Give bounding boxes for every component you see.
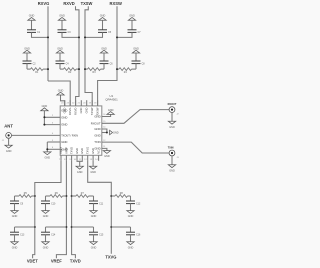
node junction on net (C13): [34, 226, 36, 228]
wire GND stem pin 13: [92, 161, 94, 167]
ground above C3: [58, 15, 65, 21]
svg-text:C12: C12: [136, 203, 141, 205]
wire left GND bus (pins 5,6): [46, 142, 48, 152]
svg-text:VREF: VREF: [64, 147, 68, 154]
svg-text:GND: GND: [129, 15, 135, 18]
pin 8 stub (bottom): [65, 155, 67, 161]
wire RXSW vertical: [98, 6, 117, 106]
wire down to C16: [130, 227, 132, 232]
capacitor C11: [89, 201, 104, 205]
wire ANT to pin 4 TXOUT/RXIN: [12, 134, 61, 136]
wire ANT shield to ground: [8, 138, 10, 145]
wire VREF net: [56, 161, 66, 258]
wire net to C14: [46, 226, 67, 228]
svg-text:VREF: VREF: [51, 259, 62, 264]
ground at IC right top: [107, 109, 114, 115]
wire GND to C3: [61, 20, 63, 30]
pin 2 stub (left): [44, 116, 60, 118]
ground below C14: [42, 242, 49, 250]
ground above C6: [100, 47, 107, 53]
node junction on net at y69 (C8): [116, 68, 118, 70]
wire C4 down: [59, 64, 61, 70]
resistor R1: [31, 68, 44, 75]
svg-text:TXIN: TXIN: [94, 140, 100, 144]
svg-text:GND: GND: [79, 107, 83, 113]
ground below C13: [11, 242, 18, 250]
svg-text:GND: GND: [128, 246, 134, 249]
svg-text:GND: GND: [94, 146, 100, 150]
svg-text:GND: GND: [101, 47, 107, 50]
wire GND to C6: [103, 53, 105, 61]
capacitor C16: [126, 232, 141, 236]
capacitor C1 (RXVG bypass): [27, 30, 41, 34]
capacitor C14: [41, 232, 56, 236]
pin 18 stub (top): [97, 100, 99, 106]
capacitor C8: [132, 61, 146, 65]
svg-text:GND: GND: [113, 132, 119, 135]
wire R6 to C10: [46, 195, 51, 197]
wire down to C14: [45, 227, 47, 232]
svg-text:GND: GND: [6, 150, 12, 153]
ground at IC left (pins 5,6): [44, 152, 51, 160]
wire C3 to net: [62, 32, 79, 37]
svg-text:GND: GND: [59, 15, 65, 18]
svg-text:GND: GND: [90, 171, 96, 174]
pin 14 stub (right GND): [102, 129, 107, 133]
wire R5 to C9: [15, 195, 20, 197]
node junction on net (C15): [71, 226, 73, 228]
node junction on net at y37 (C7): [116, 36, 118, 38]
svg-text:GND: GND: [61, 109, 67, 113]
svg-text:VDET: VDET: [27, 259, 38, 264]
wire GND bus pins 10,11 (bottom): [77, 160, 82, 163]
pin 23 stub (top): [69, 100, 71, 106]
svg-text:TXVG: TXVG: [105, 254, 116, 259]
svg-text:GND: GND: [80, 148, 84, 154]
svg-text:GND: GND: [75, 148, 79, 154]
node junction on net at y37 (C3): [78, 36, 80, 38]
ground above C2: [23, 47, 30, 53]
svg-text:GND: GND: [133, 47, 139, 50]
wire C12 to ground: [130, 204, 132, 211]
svg-text:GND: GND: [58, 89, 64, 92]
wire TXSW vertical: [85, 6, 92, 106]
ground below C16: [127, 242, 134, 250]
wire down to C13: [14, 227, 16, 232]
node junction on net (C12): [110, 195, 112, 197]
svg-text:TXOUT / RXIN: TXOUT / RXIN: [61, 133, 78, 137]
node junction on net at y69 (C4): [78, 68, 80, 70]
svg-text:GND: GND: [57, 47, 63, 50]
node junction pin6/GND bus: [46, 148, 48, 150]
svg-text:GND: GND: [61, 115, 67, 119]
svg-text:GND: GND: [91, 215, 97, 218]
svg-text:GND: GND: [100, 15, 106, 18]
capacitor C13: [10, 232, 25, 236]
wire net to R8: [111, 195, 115, 197]
svg-text:QPA4501: QPA4501: [105, 97, 118, 101]
pin 7 stub (bottom): [60, 155, 62, 161]
node junction on net (C16): [110, 226, 112, 228]
resistor R7: [76, 193, 89, 198]
wire R1 to net: [43, 68, 48, 70]
capacitor C5 (TXSW bypass): [98, 30, 112, 34]
wire left GND bus (pins 2,3): [43, 111, 45, 125]
ground at IC right middle: [110, 130, 119, 134]
pin 13 stub (right GND): [102, 132, 107, 134]
wire C1 to net: [32, 32, 49, 37]
svg-text:RXVG: RXVG: [38, 1, 50, 6]
svg-text:C16: C16: [136, 235, 141, 237]
wire down to C12: [130, 196, 132, 201]
node junction on net at y37 (C1): [47, 36, 49, 38]
resistor R8: [115, 193, 128, 198]
wire GND to C7: [131, 20, 133, 30]
wire R8 to C12: [128, 195, 131, 197]
pin 11 stub (right GND): [102, 148, 107, 150]
node junction on net (C9): [34, 195, 36, 197]
ground below RXOUT port: [168, 121, 175, 129]
svg-text:C15: C15: [99, 235, 104, 237]
node junction pin3/GND bus: [43, 124, 45, 126]
svg-text:GND: GND: [91, 148, 95, 154]
node junction on net at y69 (C6): [84, 68, 86, 70]
wire R3 to C6: [101, 68, 105, 70]
wire GND flag to pin 24: [61, 95, 65, 106]
node junction on net at y69 (C2): [47, 68, 49, 70]
ground above C7: [128, 15, 135, 21]
svg-text:NC: NC: [97, 150, 101, 154]
svg-text:GND: GND: [77, 171, 83, 174]
wire C4 to R2: [60, 68, 64, 70]
svg-text:ANT: ANT: [4, 123, 13, 128]
wire C14 to ground: [45, 235, 47, 242]
ground at IC left (pins 2,3): [41, 105, 48, 111]
node junction GND pins 13/14: [106, 132, 108, 134]
wire RXOUT port to ground: [171, 113, 173, 122]
svg-text:GND: GND: [169, 169, 175, 172]
wire GND to C4: [59, 53, 61, 61]
svg-text:GND: GND: [12, 215, 18, 218]
wire C8 down: [135, 64, 137, 70]
capacitor C10: [41, 201, 56, 205]
wire GND to C2: [26, 53, 28, 61]
wire RXVD vertical: [76, 6, 80, 106]
svg-text:RXVD: RXVD: [74, 107, 78, 114]
ground below C15: [90, 242, 97, 250]
node junction on net (C11): [71, 195, 73, 197]
svg-text:RXOUT: RXOUT: [168, 103, 177, 106]
svg-text:GND: GND: [43, 246, 49, 249]
node junction on net (C10): [65, 195, 67, 197]
ground at IC top-left: [57, 89, 64, 95]
wire C7 to net: [117, 32, 132, 37]
capacitor C15: [89, 232, 104, 236]
wire net to R3: [85, 68, 88, 70]
svg-text:RXVD: RXVD: [63, 1, 74, 6]
wire down to C9: [14, 196, 16, 201]
pin 12 stub (bottom): [87, 155, 89, 161]
wire TXVD net: [72, 161, 76, 258]
ground below C9: [11, 211, 18, 219]
wire net to R7: [72, 195, 76, 197]
wire C13 to ground: [14, 235, 16, 242]
ground below C12: [127, 211, 134, 219]
capacitor C3 (RXVD bypass): [58, 30, 72, 34]
resistor R3: [88, 68, 101, 75]
svg-text:TXVG: TXVG: [86, 147, 90, 154]
wire down to C11: [93, 196, 95, 201]
capacitor C7 (RXSW bypass): [128, 30, 142, 34]
node junction pin2/GND bus: [43, 116, 45, 118]
node junction on net (C14): [65, 226, 67, 228]
pin 24 stub (top): [64, 100, 66, 106]
pin 9 stub (bottom): [71, 155, 73, 161]
wire down to C15: [93, 227, 95, 232]
wire GND to C8: [135, 53, 137, 61]
wire TXIN port to ground: [171, 156, 173, 165]
connector J3 TXIN port: [168, 147, 175, 156]
wire C15 to ground: [93, 235, 95, 242]
connector J1 ANT port: [4, 123, 13, 138]
svg-text:GND: GND: [61, 123, 67, 127]
wire net to C15: [72, 226, 94, 228]
ground below TXIN port: [168, 165, 175, 173]
ground above C1: [28, 15, 35, 21]
svg-text:C14: C14: [51, 235, 56, 237]
pin 10 stub (bottom): [76, 155, 78, 161]
wire RXVG vertical: [47, 6, 49, 81]
wire net to R6: [63, 195, 67, 197]
svg-text:GND: GND: [108, 109, 114, 112]
svg-text:RXVG: RXVG: [68, 108, 72, 115]
IC U1 QPA4501 front-end module body: [60, 106, 102, 155]
wire GND to C5: [102, 20, 104, 30]
ground below IC (pins 10,11): [76, 166, 83, 174]
wire net to R5: [32, 195, 35, 197]
svg-text:C13: C13: [20, 235, 25, 237]
svg-text:GND: GND: [94, 127, 100, 131]
ground below ANT connector: [5, 145, 12, 153]
wire C2 down: [26, 64, 28, 70]
svg-text:RXOUT: RXOUT: [91, 121, 101, 125]
svg-text:GND: GND: [29, 15, 35, 18]
pin 3 stub (left): [44, 124, 60, 126]
svg-text:GND: GND: [85, 107, 89, 113]
wire C2 to R1: [27, 68, 31, 70]
pin 16 stub (right, GND): [102, 114, 111, 116]
wire net to R4: [117, 68, 119, 70]
wire VDET net: [33, 161, 61, 258]
ground below IC (pin 13): [89, 166, 96, 174]
svg-text:GND: GND: [94, 134, 100, 138]
ground below C11: [90, 211, 97, 219]
wire C11 to ground: [93, 204, 95, 211]
wire RXVG jog to pin 23: [48, 81, 70, 106]
resistor R4: [119, 68, 132, 75]
capacitor C9: [10, 201, 24, 205]
resistor R5: [19, 193, 32, 198]
svg-text:VDET: VDET: [59, 147, 63, 154]
wire C10 to ground: [45, 204, 47, 211]
pin 20 stub (top): [86, 100, 88, 106]
capacitor C4: [56, 61, 70, 65]
wire C16 to ground: [130, 235, 132, 242]
wire C5 to net: [85, 32, 103, 37]
pin 12 TXIN wire to port: [102, 142, 169, 153]
wire R4 to C8: [132, 68, 137, 70]
svg-text:GND: GND: [169, 126, 175, 129]
wire down to C10: [45, 196, 47, 201]
svg-text:GND: GND: [128, 215, 134, 218]
svg-text:TXVD: TXVD: [70, 147, 74, 154]
wire net to C16: [111, 226, 130, 228]
pin 13 stub (bottom): [92, 155, 94, 161]
ground above C5: [99, 15, 106, 21]
wire TXVG net: [88, 161, 112, 254]
wire net to C13: [15, 226, 35, 228]
pin 19 stub (top): [91, 100, 93, 106]
wire GND to C1: [31, 20, 33, 30]
svg-text:C11: C11: [99, 203, 104, 205]
ground at IC right bottom: [103, 151, 110, 159]
svg-text:GND: GND: [12, 246, 18, 249]
pin 21 stub (top): [80, 100, 82, 106]
node junction on net at y37 (C5): [84, 36, 86, 38]
svg-text:GND: GND: [94, 115, 100, 119]
capacitor C2: [23, 61, 37, 65]
svg-text:TXIN: TXIN: [168, 147, 174, 150]
pin 14 stub (bottom): [98, 155, 100, 161]
resistor R2: [64, 68, 77, 75]
svg-text:RXSW: RXSW: [110, 1, 122, 6]
capacitor C12: [126, 201, 141, 205]
pin 22 stub (top): [75, 100, 77, 106]
wire C9 to ground: [14, 204, 16, 211]
svg-text:C10: C10: [51, 203, 56, 205]
pin 11 stub (bottom): [81, 155, 83, 161]
svg-text:GND: GND: [43, 215, 49, 218]
ground above C4: [56, 47, 63, 53]
svg-text:GND: GND: [61, 140, 67, 144]
pin 5 stub (left): [47, 141, 60, 143]
ground below C10: [42, 211, 49, 219]
svg-text:GND: GND: [91, 246, 97, 249]
wire C6 down: [103, 64, 105, 70]
svg-text:TXSW: TXSW: [81, 1, 93, 6]
svg-text:GND: GND: [42, 105, 48, 108]
ground above C8: [132, 47, 139, 53]
svg-text:GND: GND: [104, 155, 110, 158]
capacitor C6: [100, 61, 114, 65]
svg-text:GND: GND: [24, 47, 30, 50]
resistor R6: [50, 193, 63, 198]
wire GND stem: [79, 161, 81, 166]
pin 15 RXOUT wire to port: [102, 110, 169, 124]
svg-text:TXVD: TXVD: [70, 259, 81, 264]
wire R2 to net: [76, 68, 79, 70]
svg-text:GND: GND: [45, 157, 51, 160]
wire R7 to C11: [89, 195, 94, 197]
connector J2 RXOUT port: [168, 103, 177, 112]
pin 6 stub (left): [47, 148, 60, 150]
